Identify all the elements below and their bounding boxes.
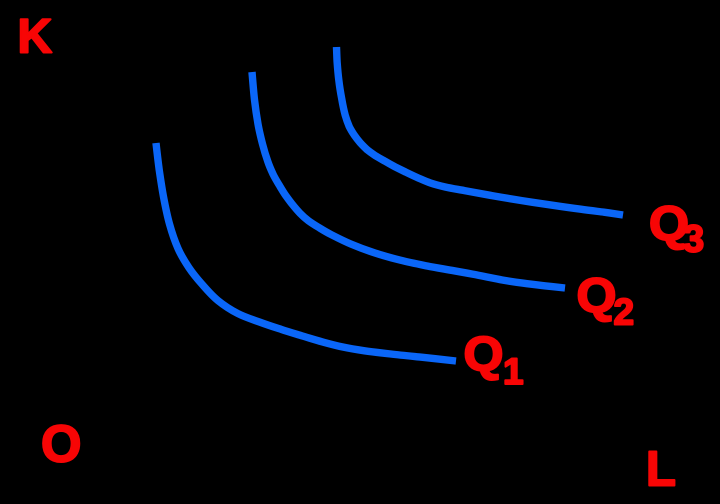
svg-text:2: 2 bbox=[614, 292, 635, 333]
svg-text:L: L bbox=[646, 443, 676, 497]
svg-text:Q: Q bbox=[577, 270, 617, 323]
svg-text:Q: Q bbox=[464, 329, 504, 382]
svg-text:1: 1 bbox=[503, 351, 524, 392]
svg-text:K: K bbox=[18, 11, 53, 64]
svg-text:O: O bbox=[41, 416, 81, 474]
svg-text:3: 3 bbox=[683, 219, 704, 261]
